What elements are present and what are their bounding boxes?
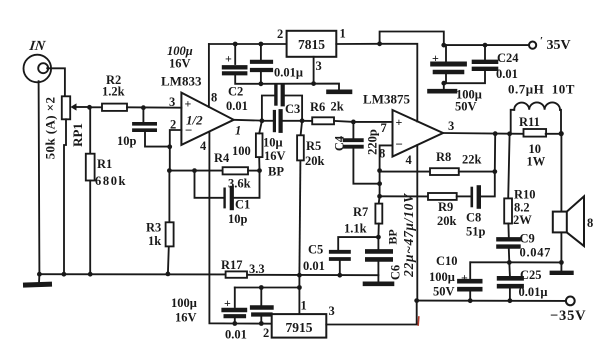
capacitor 100u 16V top	[224, 44, 261, 84]
node pin8/R8	[377, 168, 382, 173]
resistor R10	[504, 134, 535, 237]
capacitor C4 220p	[333, 122, 380, 184]
svg-text:IN: IN	[27, 38, 47, 54]
op-amp U2 LM3875	[363, 92, 454, 168]
ground symbol topright	[430, 83, 456, 91]
svg-text:C3: C3	[285, 102, 300, 116]
node 10p/pin2	[167, 144, 172, 149]
node jack gnd on bus	[37, 272, 42, 277]
node R7/C5/C6	[376, 235, 381, 240]
node RP1 on bus	[62, 272, 67, 277]
svg-text:1k: 1k	[148, 234, 161, 248]
svg-text:2k: 2k	[331, 100, 344, 114]
svg-text:3.3: 3.3	[249, 262, 265, 276]
svg-text:C24: C24	[497, 51, 519, 65]
svg-text:+: +	[461, 271, 468, 285]
resistor R9	[428, 193, 470, 228]
capacitor C6 electrolytic BP	[367, 237, 402, 281]
svg-text:R6: R6	[310, 100, 325, 114]
svg-text:2: 2	[263, 326, 269, 340]
svg-text:C10: C10	[436, 254, 458, 268]
svg-text:0.01: 0.01	[226, 99, 248, 113]
node R4 right	[257, 168, 262, 173]
svg-text:35V: 35V	[547, 38, 571, 53]
capacitor C2 0.01 upper branch	[226, 85, 302, 121]
svg-text:R4: R4	[214, 151, 230, 165]
svg-text:R1: R1	[97, 157, 112, 171]
node output T	[559, 131, 564, 136]
svg-text:R17: R17	[221, 258, 243, 272]
svg-text:′: ′	[540, 35, 543, 47]
wire decoupling ground line	[261, 84, 339, 90]
svg-text:R5: R5	[306, 139, 321, 153]
wire LM3875 pin4 down to -35V rail	[416, 145, 418, 300]
svg-text:50k (A) ×2: 50k (A) ×2	[43, 97, 58, 160]
svg-text:1: 1	[235, 124, 241, 138]
wire feedback up to output	[494, 134, 496, 172]
resistor R8	[430, 150, 495, 175]
wire 7815 pin1 to V+ node	[336, 43, 379, 45]
wire pin2 down	[170, 130, 182, 171]
svg-text:0.047: 0.047	[520, 246, 552, 260]
red mark	[417, 317, 420, 325]
node C10 rail	[468, 298, 473, 303]
svg-text:0.01: 0.01	[496, 67, 518, 81]
capacitor 0.01u top	[252, 44, 303, 84]
node C9 bottom	[507, 260, 512, 265]
svg-text:LM3875: LM3875	[363, 92, 410, 107]
svg-text:+: +	[225, 52, 232, 66]
svg-text:7915: 7915	[286, 320, 313, 335]
node wiper/R1/R2	[87, 105, 92, 110]
svg-text:100μ: 100μ	[171, 296, 197, 310]
capacitor 100u 16V bottom	[171, 288, 245, 325]
svg-text:−35V: −35V	[550, 308, 586, 324]
capacitor C9 0.047	[498, 232, 551, 263]
ground symbol near 7815	[329, 90, 351, 95]
wire R4 row	[169, 170, 222, 172]
wire LM3875 pin8	[380, 145, 393, 196]
capacitor C1 10p	[195, 171, 260, 226]
svg-text:22μ~47μ/10V: 22μ~47μ/10V	[401, 193, 416, 278]
wire pin4 LM833 down to negative supply line	[209, 133, 234, 324]
node V+ junction	[377, 41, 382, 46]
node 0.01u bottom	[259, 81, 264, 86]
node caps top line	[297, 285, 302, 290]
node caps bottom line	[232, 321, 237, 326]
svg-text:C2: C2	[228, 85, 243, 99]
node C5 bottom on bus	[337, 273, 342, 278]
svg-text:2W: 2W	[513, 213, 532, 227]
svg-text:8: 8	[587, 216, 593, 230]
svg-text:7: 7	[381, 121, 387, 135]
capacitor C24 0.01	[444, 45, 519, 83]
svg-text:0.01μ: 0.01μ	[519, 285, 548, 299]
regulator 7915	[263, 299, 335, 341]
svg-text:C5: C5	[308, 243, 323, 257]
node 7815 pin3	[311, 81, 316, 86]
node R2/10p	[141, 105, 146, 110]
node C1 left	[192, 168, 197, 173]
svg-text:20k: 20k	[437, 214, 457, 228]
wire V+ to LM3875 top	[380, 44, 418, 122]
node R10/L on output	[507, 131, 512, 136]
svg-text:3: 3	[169, 95, 175, 109]
wire LM833 output	[234, 119, 262, 122]
svg-text:0.7μH 10T: 0.7μH 10T	[508, 82, 575, 97]
wire R9 row	[380, 195, 428, 197]
node 0.01u top	[259, 42, 264, 47]
svg-text:1/2: 1/2	[186, 113, 203, 128]
svg-text:1: 1	[340, 27, 346, 41]
svg-text:51p: 51p	[466, 225, 486, 239]
label 100u 16V LM833	[161, 44, 202, 89]
resistor 100 ohm	[232, 121, 263, 171]
svg-text:2: 2	[277, 27, 283, 41]
ground bus right part	[247, 274, 378, 276]
node C3 right / R5 top	[300, 118, 305, 123]
svg-text:1.1k: 1.1k	[344, 222, 367, 236]
svg-text:3: 3	[329, 304, 335, 318]
svg-text:50V: 50V	[455, 100, 477, 114]
node R3 bottom	[166, 272, 171, 277]
wire 7915 pin1	[298, 275, 300, 314]
svg-text:10p: 10p	[117, 134, 137, 148]
resistor R1	[86, 107, 127, 274]
node bus/7915 pin1	[297, 273, 302, 278]
svg-text:0.01μ: 0.01μ	[274, 66, 303, 80]
node C25 rail	[508, 298, 513, 303]
wire V+ up and top rail	[380, 32, 444, 46]
node speaker/zobel	[559, 260, 564, 265]
wire speaker to ground	[560, 232, 562, 271]
resistor R6	[302, 100, 353, 125]
ground bus left	[39, 273, 225, 275]
svg-text:16V: 16V	[175, 311, 197, 325]
capacitor C25 0.01u	[499, 262, 547, 300]
svg-text:R11: R11	[519, 115, 540, 129]
svg-text:R7: R7	[353, 205, 368, 219]
node C2/C3 left	[260, 118, 265, 123]
wire caps top line	[235, 287, 300, 289]
wire speaker drop	[560, 134, 562, 212]
svg-text:R10: R10	[514, 188, 536, 202]
node C24 top	[483, 43, 488, 48]
svg-text:R9: R9	[438, 200, 453, 214]
op-amp U1 LM833 1/2	[169, 91, 234, 154]
node 100u16V top	[233, 42, 238, 47]
top rail right to +35V	[444, 44, 529, 46]
svg-text:C8: C8	[466, 211, 481, 225]
svg-text:100μ: 100μ	[429, 270, 455, 284]
node feedback on output	[493, 131, 498, 136]
capacitor C8 51p	[466, 172, 495, 239]
svg-text:1W: 1W	[527, 155, 546, 169]
svg-text:1.2k: 1.2k	[102, 85, 125, 99]
ground symbol speaker	[552, 271, 572, 275]
svg-text:C25: C25	[520, 268, 542, 282]
wire R8 row	[380, 171, 430, 172]
svg-text:16V: 16V	[169, 57, 191, 71]
svg-text:C1: C1	[235, 198, 250, 212]
potentiometer RP1	[43, 96, 90, 159]
svg-text:LM833: LM833	[161, 74, 202, 89]
regulator 7815	[277, 27, 346, 84]
wire +15V rail to 7815 pin2	[209, 43, 287, 45]
speaker 8 ohm	[553, 196, 593, 246]
node R6 right / C4	[351, 120, 356, 125]
capacitor 10p input	[117, 108, 170, 148]
wire 7915 pin3 to -35V rail	[326, 301, 416, 325]
svg-text:C9: C9	[520, 232, 535, 246]
svg-text:+: +	[396, 115, 403, 129]
resistor R3	[146, 171, 174, 274]
svg-text:R8: R8	[436, 150, 451, 164]
svg-text:50V: 50V	[433, 285, 455, 299]
svg-text:22k: 22k	[462, 153, 482, 167]
resistor R2	[90, 73, 182, 111]
node 100u50V top	[441, 43, 446, 48]
terminal +35V	[529, 35, 571, 53]
svg-text:C4: C4	[333, 135, 347, 151]
node R9 row	[377, 194, 382, 199]
capacitor 0.01 bottom	[225, 288, 272, 342]
wire RP1 bottom to ground bus	[64, 119, 66, 274]
svg-text:BP: BP	[268, 165, 284, 179]
svg-text:680k: 680k	[95, 174, 127, 188]
wire jack ground down	[38, 81, 41, 274]
resistor R11	[519, 115, 561, 169]
resistor R17	[221, 258, 265, 278]
svg-text:20k: 20k	[305, 154, 325, 168]
terminal -35V	[550, 297, 586, 325]
svg-text:−: −	[396, 137, 403, 152]
svg-text:1: 1	[301, 299, 307, 313]
svg-text:+: +	[185, 97, 192, 111]
svg-text:10μ: 10μ	[263, 136, 283, 150]
node R8 right feedback	[492, 169, 497, 174]
svg-text:8: 8	[211, 91, 217, 105]
-35V rail	[417, 300, 566, 302]
svg-text:BP: BP	[386, 229, 400, 244]
wire caps bottom to 7915 pin2	[235, 323, 272, 325]
svg-text:3: 3	[316, 59, 322, 73]
svg-text:R3: R3	[146, 221, 161, 235]
svg-text:3: 3	[448, 119, 454, 133]
ground symbol C6	[365, 281, 392, 286]
svg-text:7815: 7815	[298, 37, 325, 52]
resistor R4	[214, 151, 260, 191]
node gnd topright	[441, 81, 446, 86]
resistor R7	[344, 196, 382, 237]
wire LM3875 output	[443, 132, 523, 135]
inductor L 0.7uH 10T	[508, 82, 575, 134]
svg-text:4: 4	[406, 153, 413, 167]
svg-text:100: 100	[232, 144, 251, 158]
svg-text:16V: 16V	[264, 149, 286, 163]
wire to LM3875 +in	[353, 121, 392, 123]
wire zobel row	[471, 261, 562, 263]
node C4 join	[377, 181, 382, 186]
svg-text:0.01: 0.01	[303, 259, 325, 273]
svg-text:0.01: 0.01	[225, 328, 247, 342]
svg-text:4: 4	[200, 139, 207, 153]
ground symbol left	[26, 274, 50, 285]
node pin4 rail	[414, 298, 419, 303]
svg-text:10p: 10p	[228, 212, 248, 226]
capacitor 100u 50V topright	[432, 45, 482, 113]
node R1 on bus	[88, 272, 93, 277]
input jack IN	[24, 38, 52, 82]
node feedback top	[167, 168, 172, 173]
svg-text:220p: 220p	[366, 129, 380, 155]
resistor R5	[297, 121, 324, 275]
wire jack tip to RP1 top	[47, 68, 65, 96]
capacitor C3 10u BP in line	[262, 102, 302, 179]
node 0.01 bottom cap top	[259, 285, 264, 290]
svg-text:RP1: RP1	[70, 123, 85, 147]
capacitor C5 0.01	[303, 237, 378, 275]
wire LM833 pin8 up to +15V rail	[208, 44, 210, 107]
capacitor C10 100u 50V	[429, 254, 480, 301]
